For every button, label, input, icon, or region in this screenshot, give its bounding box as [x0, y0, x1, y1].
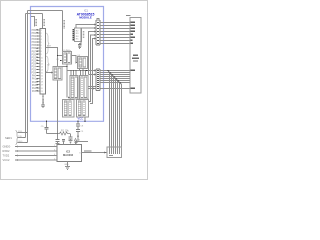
wire row 2 to IC2: [15, 150, 54, 152]
svg-text:SER1: SER1: [5, 136, 12, 140]
svg-text:PB6: PB6: [32, 48, 37, 50]
label vertical XTAL: [63, 21, 65, 29]
wire x90 down to box5: [88, 75, 91, 102]
wire box5 to rail: [84, 117, 86, 121]
wire C5 to R1 junction: [47, 133, 58, 135]
LCD pin labels top group: [131, 22, 135, 44]
bus verticals down: [110, 73, 122, 155]
wire row 4 to IC2: [15, 159, 54, 161]
label GND vertical: [42, 100, 44, 105]
arrow into box A: [68, 97, 70, 99]
component box B: [80, 76, 89, 100]
RN1 left pin bar: [72, 29, 74, 40]
wire CN1 bend 1 to RN1: [76, 25, 95, 29]
svg-text:TXD2: TXD2: [3, 153, 10, 157]
component X1 crystal box: [63, 52, 72, 65]
IC1 right brace upper: [46, 33, 49, 54]
wires boxes A/B to 4/5: [73, 98, 86, 101]
arrows into CN1: [94, 24, 96, 40]
wire crystal left lower: [61, 60, 63, 62]
wires CN1 to LCD: [100, 23, 130, 44]
wire rail B drop to IC1: [42, 14, 44, 29]
svg-text:PB2: PB2: [32, 36, 37, 38]
svg-text:PA5: PA5: [32, 90, 37, 93]
component box A: [70, 76, 78, 100]
IC2 left pin stubs: [54, 147, 58, 161]
wire x67 down to box A: [66, 71, 68, 98]
arrow into CN2 pin1: [94, 70, 96, 72]
svg-text:PD3: PD3: [32, 63, 37, 65]
bus entry diagonals: [108, 71, 122, 85]
IC2 right wire to CN3: [82, 152, 108, 154]
RN1 rows: [76, 31, 80, 41]
component box4: [63, 100, 75, 118]
component RN1 box: [75, 28, 82, 42]
arrow on gnd wire: [93, 88, 95, 90]
svg-text:PB0: PB0: [32, 30, 37, 32]
svg-text:PB3: PB3: [32, 39, 37, 41]
svg-text:PA0: PA0: [32, 75, 37, 78]
junction dots on y70: [70, 70, 87, 71]
svg-text:PD1: PD1: [32, 57, 37, 59]
wire box B right to LCD gnd: [88, 88, 130, 90]
wire box2 bottom stubs: [80, 69, 84, 71]
junction dot: [66, 66, 67, 67]
wire horizontal y74: [89, 74, 97, 76]
svg-text:IC2: IC2: [66, 149, 71, 153]
wire crystal left to reset net: [58, 55, 63, 57]
capacitor C7 after R1: [70, 134, 72, 137]
wire row 3 to IC2: [15, 155, 54, 157]
svg-text:PA3: PA3: [32, 84, 37, 87]
wire brace row 1: [18, 132, 28, 134]
svg-text:PD0: PD0: [32, 54, 37, 56]
svg-text:RXD2: RXD2: [3, 149, 10, 153]
svg-text:PA4: PA4: [32, 87, 37, 90]
wire IC1 to reset box with arrow: [46, 72, 52, 74]
box A top stubs: [71, 71, 76, 76]
wire crystal bottom branch: [66, 64, 68, 71]
junction dot on rail: [84, 121, 85, 122]
wire brace row 2: [18, 137, 26, 139]
net VCC blue frame: [31, 7, 104, 122]
component C5 cap on rail: [46, 121, 48, 133]
svg-text:GNDʘ: GNDʘ: [3, 144, 11, 148]
label CN3: [109, 155, 113, 156]
IC2 top pin VCC arrow: [75, 141, 77, 145]
wire gray rail B horizontal: [26, 13, 43, 15]
IC IC1 body: [40, 29, 46, 95]
wire gray rail A vertical: [27, 11, 29, 143]
border frame: [1, 1, 148, 180]
connector CN3 bottom box: [107, 147, 122, 158]
svg-text:VCC2: VCC2: [3, 158, 10, 162]
svg-text:PB1: PB1: [32, 33, 37, 35]
capacitor C8 below rail: [77, 122, 79, 124]
IC1 inside pin numbers: [41, 30, 44, 93]
IC2 pin numbers: [54, 145, 56, 161]
wire crystal right to box2: [72, 56, 78, 63]
label right of RN1: [83, 32, 85, 38]
wire reset net horizontal: [46, 48, 58, 67]
wire x92 down to box5: [90, 75, 93, 104]
svg-text:PD4: PD4: [32, 67, 37, 69]
arrows at wire ends: [23, 132, 27, 144]
brace SER1 group: [16, 131, 19, 145]
svg-text:PD6: PD6: [32, 73, 37, 75]
ground symbol IC1: [41, 105, 45, 108]
svg-text:GND: GND: [18, 141, 23, 143]
svg-text:RXD: RXD: [18, 131, 23, 133]
bus tap dots: [107, 70, 120, 83]
IC2 ground stub: [67, 162, 69, 167]
LCD pin label VCC: [131, 70, 135, 71]
CN2 pin marks: [97, 70, 99, 89]
svg-text:Q1 4MHz: Q1 4MHz: [62, 50, 71, 52]
svg-text:PB7: PB7: [32, 51, 37, 53]
wire CN1 bend 4: [91, 35, 95, 75]
svg-text:MAX232: MAX232: [63, 153, 74, 157]
IC1 right brace lower: [46, 56, 49, 72]
wire corner right: [78, 141, 88, 143]
component box5: [77, 100, 89, 118]
wire long horizontal y70: [67, 70, 96, 72]
component reset box: [53, 67, 62, 81]
junction dots on y74: [90, 74, 93, 75]
svg-text:R1 10k: R1 10k: [61, 130, 69, 133]
label on wire: [84, 150, 92, 151]
connector CN1: [96, 20, 100, 45]
wire VCC branch to IC1: [31, 17, 35, 27]
wire CN1 bend 2: [81, 28, 95, 42]
arrow into CN3: [104, 151, 107, 153]
wire reset vertical to R1 junction: [57, 81, 59, 134]
wire CN1 bend 3: [89, 32, 95, 75]
label CN1: [96, 18, 99, 19]
IC1 left pin labels: [32, 30, 37, 93]
module LCD box: [130, 18, 141, 94]
wire down from C9: [77, 131, 79, 141]
svg-text:MODULE: MODULE: [79, 16, 92, 20]
wire gray rail B vertical left: [25, 14, 27, 138]
LCD pin label GND: [131, 88, 135, 89]
LCD center label: [133, 55, 138, 56]
IC2 top pin C1: [63, 142, 65, 145]
wire brace row 3: [18, 142, 28, 144]
wire row 1 to IC2: [15, 146, 54, 148]
label vertical VCC: [35, 20, 37, 26]
IC IC2 box: [57, 145, 82, 162]
capacitor C9 below C8: [77, 126, 79, 129]
IC1 ground stub: [42, 94, 44, 98]
wire branch to reset box top: [62, 66, 67, 68]
wire CN1 bend 5: [93, 39, 95, 75]
svg-text:GND: GND: [64, 164, 69, 166]
svg-text:PB4: PB4: [32, 42, 37, 44]
IC1 pin dots: [36, 29, 37, 91]
IC1 left pin ticks: [38, 30, 41, 91]
capacitor under RN1: [80, 42, 82, 45]
svg-text:PA1: PA1: [32, 78, 37, 81]
svg-text:PD5: PD5: [32, 70, 37, 72]
svg-text:PA2: PA2: [32, 81, 37, 84]
junction dot R1 node: [57, 133, 58, 134]
junction dot: [57, 55, 58, 56]
wire box B right upper: [88, 86, 96, 88]
bus wires CN2 to right: [100, 71, 130, 83]
CN1 pin marks: [97, 22, 99, 44]
svg-text:PD2: PD2: [32, 60, 37, 62]
junction dot: [77, 136, 78, 137]
ground symbol IC2: [65, 167, 70, 170]
box B top stubs: [81, 71, 86, 76]
svg-text:TXD: TXD: [18, 136, 23, 138]
ground left of corner: [75, 142, 79, 144]
junction dot rail x78: [77, 121, 78, 122]
label vertical RST: [43, 20, 45, 26]
component box2: [78, 57, 88, 69]
capacitor C6 below junction: [57, 134, 59, 140]
wire XTAL drop: [62, 11, 64, 52]
svg-text:PB5: PB5: [32, 45, 37, 47]
wire gray rail A horizontal: [28, 10, 63, 12]
arrow into box2: [76, 62, 78, 64]
label LCD1 above: [126, 15, 131, 16]
connector CN2: [96, 69, 100, 91]
resistor R1: [58, 132, 71, 135]
